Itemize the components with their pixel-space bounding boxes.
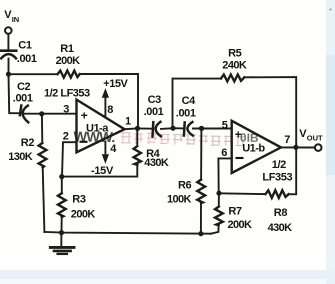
svg-text:C1: C1 [18,40,32,52]
wire [8,59,10,75]
svg-text:C4: C4 [182,95,197,107]
svg-text:5: 5 [222,120,228,132]
node U1a output [135,126,140,131]
op-amp U1-a [77,100,125,153]
svg-text:U1-b: U1-b [242,143,265,155]
svg-text:6: 6 [221,147,227,159]
scan blue bottom band [0,270,335,279]
op-amp minus U1-a [80,141,88,143]
svg-text:130K: 130K [8,151,33,163]
node R6 rail [198,231,203,236]
wire [136,128,138,146]
wire output [281,146,315,148]
svg-text:430K: 430K [144,157,169,169]
wire [61,217,63,233]
wire R5 loop up [173,79,222,129]
wire [9,74,20,113]
wire [161,127,173,130]
svg-text:R2: R2 [21,137,35,149]
svg-text:430K: 430K [268,222,293,234]
svg-text:2: 2 [63,131,69,143]
pin 8 +15V supply [104,96,106,118]
wire [289,147,297,194]
resistor R2 [39,143,47,168]
capacitor C4 [183,122,186,135]
wire [43,168,45,232]
svg-text:8: 8 [107,104,113,116]
node Vout terminal [315,144,322,151]
resistor R8 [266,190,289,198]
node pin2 junction [59,174,64,179]
capacitor C3 [151,122,154,136]
node output [293,145,298,150]
svg-text:100K: 100K [167,193,192,205]
wire [200,203,202,234]
svg-text:1/2 LF353: 1/2 LF353 [44,88,90,100]
svg-text:.001: .001 [17,53,37,65]
wire [62,165,137,177]
svg-text:OUT: OUT [307,133,323,142]
svg-text:R3: R3 [72,194,86,206]
resistor R7 [215,207,223,226]
node B [39,111,44,116]
resistor R1 [58,71,80,78]
resistor R6 [197,180,205,203]
wire [41,114,43,143]
svg-text:4: 4 [110,143,117,155]
wire [80,74,138,128]
node Vin terminal [5,27,12,34]
resistor R3 [58,193,66,217]
scan speck top right [330,9,332,11]
svg-text:.001: .001 [13,92,33,104]
svg-text:1: 1 [125,116,131,128]
op-amp minus U1-b [236,157,244,159]
capacitor C2 [20,106,21,116]
ground [60,233,62,246]
svg-text:240K: 240K [222,60,247,72]
pin 4 -15V supply [104,142,106,155]
node pin6 junction [216,191,221,196]
capacitor C1 [1,49,16,52]
svg-text:R7: R7 [228,206,242,218]
svg-text:200K: 200K [228,219,253,231]
wire [211,225,219,233]
wire R6 column [200,128,202,179]
watermark WWW.hz text [73,128,259,148]
wire [173,127,183,129]
junction R3-gnd [59,230,64,235]
wire R7 column [218,193,220,206]
svg-text:R1: R1 [60,43,74,55]
node C4-R6 [199,126,204,131]
svg-text:C3: C3 [148,94,162,106]
wire [244,77,296,147]
svg-text:7: 7 [284,134,290,146]
wire [24,113,77,115]
svg-text:+: + [235,127,242,141]
wire [138,127,152,129]
svg-text:3: 3 [63,104,69,116]
wire R3 column [61,177,63,194]
svg-text:+15V: +15V [103,78,128,90]
node A [6,72,11,77]
svg-text:200K: 200K [71,208,96,220]
wire [193,128,232,130]
svg-text:IN: IN [12,15,20,24]
svg-text:R5: R5 [228,48,242,60]
svg-text:LF353: LF353 [262,172,292,184]
wire [9,73,58,75]
op-amp U1-b [232,121,281,173]
wire pin1 [125,127,138,130]
svg-text:R6: R6 [178,179,192,191]
resistor R4 [134,146,141,165]
wire pin2 [62,142,77,176]
svg-text:R8: R8 [274,207,288,219]
wire [7,34,9,49]
wire R8 line [219,192,266,195]
svg-text:-15V: -15V [91,165,114,177]
svg-text:.001: .001 [176,108,196,120]
svg-text:200K: 200K [56,55,81,67]
svg-text:U1-a: U1-a [86,123,109,135]
node C3-C4 [170,126,175,131]
svg-text:.001: .001 [144,106,164,118]
wire bottom rail [44,232,210,234]
svg-text:1/2: 1/2 [272,159,286,171]
wire pin6 [218,158,231,193]
svg-text:+: + [81,108,88,122]
resistor R5 [221,75,244,82]
scan blue right band [326,0,335,55]
